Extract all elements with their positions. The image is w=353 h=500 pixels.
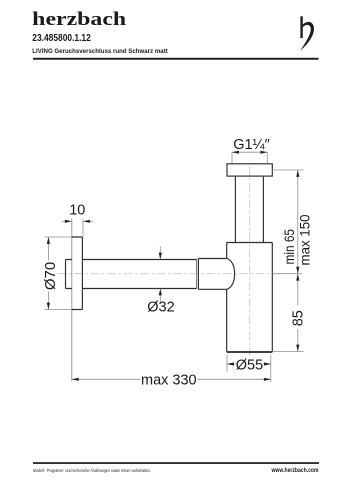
svg-text:Ø55: Ø55 xyxy=(236,358,263,374)
arrow 85 bottom xyxy=(296,345,299,352)
min/max dimension lines xyxy=(272,169,303,171)
svg-text:G1¼″: G1¼″ xyxy=(233,137,270,153)
arrow minmax bottom xyxy=(296,267,299,274)
nut dome xyxy=(227,259,235,290)
svg-text:23.485800.1.12: 23.485800.1.12 xyxy=(32,33,91,44)
diam55 dimension xyxy=(227,355,271,383)
85 dimension line xyxy=(297,274,299,352)
G1 1/4 dimension xyxy=(232,152,267,163)
header rule xyxy=(33,58,319,60)
pipe end line inside nut xyxy=(196,259,198,289)
arrowheads xyxy=(47,151,300,381)
coupling nut Q xyxy=(198,259,226,290)
pipe stub behind wall xyxy=(66,260,72,289)
diam32 arrow tails xyxy=(159,247,161,302)
svg-text:Modell-, Programm- und technis: Modell-, Programm- und technische Änderu… xyxy=(33,468,151,473)
svg-text:10: 10 xyxy=(69,203,85,219)
wall flange (rosette) xyxy=(72,237,83,310)
logo symbol h xyxy=(300,16,314,50)
svg-text:Ø70: Ø70 xyxy=(42,262,59,290)
arrow max330 left xyxy=(72,378,79,381)
arrow G right xyxy=(260,151,267,154)
svg-text:LIVING Geruchsverschluss rund: LIVING Geruchsverschluss rund Schwarz ma… xyxy=(32,48,168,55)
siphon body xyxy=(227,243,273,352)
arrow max330 right xyxy=(264,378,271,381)
top flange nut xyxy=(227,164,272,176)
arrow G left xyxy=(232,151,239,154)
arrow d32 top xyxy=(159,253,162,260)
svg-text:max 150: max 150 xyxy=(296,214,312,265)
arrow minmax top xyxy=(296,170,299,177)
footer rule xyxy=(33,462,319,464)
wall line / flange left edge xyxy=(71,219,73,382)
horizontal centerline of pipe xyxy=(58,273,273,275)
arrow 85 top xyxy=(296,274,299,281)
10 dimension extension xyxy=(82,219,84,237)
arrow d55 left xyxy=(227,362,234,365)
vertical centerline of body xyxy=(249,167,251,356)
arrow 10 left xyxy=(65,220,72,223)
diam70 dimension xyxy=(45,237,72,310)
svg-text:herzbach: herzbach xyxy=(32,9,126,30)
arrow d55 right xyxy=(264,362,271,365)
body bottom edge xyxy=(227,351,273,353)
arrow d70 bottom xyxy=(47,303,50,310)
svg-text:Ø32: Ø32 xyxy=(147,300,174,316)
svg-text:www.herzbach.com: www.herzbach.com xyxy=(271,467,319,474)
horizontal pipe xyxy=(82,260,196,289)
svg-text:85: 85 xyxy=(290,310,306,326)
svg-text:min 65: min 65 xyxy=(281,229,297,265)
arrow d70 top xyxy=(47,237,50,244)
max330 dimension line xyxy=(72,378,271,380)
svg-text:max 330: max 330 xyxy=(141,373,197,389)
arrow 10 right xyxy=(83,220,90,223)
vertical tube xyxy=(235,177,263,243)
arrow d32 bottom xyxy=(159,289,162,296)
